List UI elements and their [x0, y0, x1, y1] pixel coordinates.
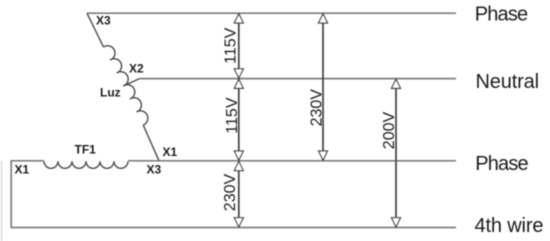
measurement arrow 230V (phase bottom to 4th wire) shaft: [238, 161, 240, 227]
net label Phase (top): [475, 4, 528, 26]
net label Neutral: [476, 71, 539, 93]
label X1 left: [15, 163, 30, 177]
arrowhead down at phase bottom: [234, 151, 243, 160]
inductor winding Luz (vertical, terminals X3/X2/X1): [104, 46, 148, 125]
arrowhead down at 4th wire (200V): [392, 218, 401, 227]
arrowhead down at phase bottom (230V): [319, 151, 328, 160]
svg-text:200V: 200V: [381, 111, 398, 149]
value label 115V upper: [223, 27, 240, 64]
svg-text:230V: 230V: [222, 173, 239, 211]
svg-text:Phase: Phase: [475, 4, 528, 26]
wire neutral line: [140, 78, 457, 80]
measurement arrow 230V (phase top to phase bottom) shaft: [322, 14, 324, 160]
svg-text:TF1: TF1: [75, 142, 97, 156]
measurement arrow 200V (neutral to 4th wire) shaft: [395, 79, 397, 227]
arrowhead up at neutral below line: [234, 79, 243, 88]
svg-text:4th wire: 4th wire: [475, 215, 544, 237]
svg-text:Luz: Luz: [100, 85, 121, 99]
arrowhead up below phase bottom: [234, 161, 243, 170]
net label Phase (bottom): [475, 153, 528, 175]
wire left vertical: [10, 160, 12, 228]
wire phase top line: [87, 12, 456, 14]
value label 200V: [381, 111, 398, 149]
wire diagonal from X3 to winding: [87, 13, 104, 47]
svg-text:115V: 115V: [223, 27, 240, 64]
inductor winding TF1 (horizontal): [44, 161, 128, 168]
arrowhead up at neutral (200V): [392, 79, 401, 88]
value label 230V left: [222, 173, 239, 211]
label X2: [129, 62, 144, 76]
arrowhead up at phase top: [234, 14, 243, 23]
label Luz: [100, 85, 121, 99]
svg-text:X1: X1: [15, 163, 30, 177]
label X1 junction: [163, 145, 178, 159]
label TF1: [75, 142, 97, 156]
svg-text:X3: X3: [147, 162, 162, 176]
svg-text:230V: 230V: [309, 89, 326, 127]
value label 230V middle: [309, 89, 326, 127]
measurement arrow 115V (neutral to phase bottom) shaft: [238, 79, 240, 160]
arrowhead up at phase top (230V): [319, 14, 328, 23]
svg-text:X3: X3: [96, 14, 111, 28]
wire phase bottom line right segment: [128, 160, 456, 162]
svg-text:Neutral: Neutral: [476, 71, 539, 93]
arrowhead down at neutral: [234, 69, 243, 78]
wire phase bottom line left segment: [11, 160, 44, 162]
arrowhead down at 4th wire: [234, 218, 243, 227]
svg-text:Phase: Phase: [475, 153, 528, 175]
measurement arrow 115V (phase top to neutral) shaft: [238, 14, 240, 78]
svg-text:115V: 115V: [224, 97, 241, 134]
net label 4th wire: [475, 215, 544, 237]
svg-text:X1: X1: [163, 145, 178, 159]
label X3 junction: [147, 162, 162, 176]
value label 115V lower: [224, 97, 241, 134]
wire faint left border: [1, 161, 3, 241]
label X3 top: [96, 14, 111, 28]
wire 4th wire line: [11, 227, 456, 229]
wire diagonal winding bottom to X1 junction: [143, 125, 159, 161]
svg-text:X2: X2: [129, 62, 144, 76]
wire tap X2 to neutral: [123, 79, 139, 86]
